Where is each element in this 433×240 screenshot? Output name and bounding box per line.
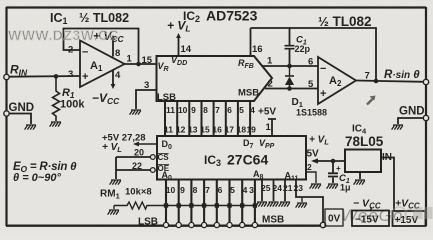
junction D1/pin2 wire [287, 86, 292, 91]
wire CS/OE common to ground [115, 157, 117, 179]
frame right border [425, 7, 427, 226]
wire Rin to A1 pin3 [9, 75, 80, 78]
frame left border [5, 7, 7, 226]
IC3 pin 20 CS wire [116, 156, 150, 158]
IC3 pin 23 wire to 0V terminal [296, 180, 323, 224]
ground RM1 [108, 210, 119, 215]
terminal 0V circle [320, 222, 325, 227]
wire A2 output [356, 81, 424, 82]
IC2 pin 16 wire up [250, 28, 252, 56]
IC3 address pin numbers [166, 185, 254, 195]
ground [392, 125, 403, 130]
IC2 pin 3 LSB wire to ground [136, 90, 157, 109]
ground pin 24 [267, 202, 278, 207]
78L05 ground stub [359, 172, 361, 179]
ground [130, 110, 141, 115]
EPROM IC3 27C64 body [157, 136, 306, 180]
wire +VL arrow to IC3 [137, 143, 157, 145]
IC3 data pin numbers 11-19 [164, 125, 256, 135]
junction R1 top [54, 74, 59, 79]
feedback top wire to A2 output [251, 28, 377, 81]
data bus wires IC2 to IC3 (8) [165, 101, 250, 136]
wire GND right to ground [398, 118, 424, 124]
IC2 pin 14 VDD stub [178, 36, 180, 56]
watermark [341, 206, 433, 225]
terminal R sin theta [423, 79, 428, 84]
terminal box +15V [393, 211, 426, 226]
ground R1 [50, 122, 61, 127]
junction feedback/A2 output [374, 79, 379, 84]
frame top border [6, 6, 426, 8]
A1 feedback wire pin2 to output [64, 29, 139, 65]
ground pin 25 [256, 202, 267, 207]
wire -Vcc stub [370, 207, 372, 211]
terminal box 0V [325, 209, 343, 226]
capacitor C1 1u [332, 161, 334, 173]
bus terminal circles [163, 222, 257, 227]
IC3 pin 22 OE wire [116, 169, 150, 171]
ground pin 21 [279, 202, 290, 207]
ground [25, 125, 36, 130]
DAC IC2 AD7523 body [157, 56, 273, 101]
wire IC2 pin1 to A2 pin6 [262, 65, 318, 67]
address wires IC3 bottom (8) [166, 180, 255, 225]
op-amp U1 A1 [80, 41, 125, 88]
diode D1 1S1588 [289, 66, 291, 76]
junction dots on RM1 bus [164, 203, 257, 207]
terminal box -15V [352, 211, 389, 227]
junction C1 rail [331, 159, 336, 164]
IC2 data pin numbers 11-4 [166, 105, 255, 115]
resistor R1 100k [53, 76, 60, 121]
wire 5V to 78L05 output [317, 160, 345, 162]
IC3 pins 25,24,21 grounds [262, 180, 285, 202]
wire GND left to ground [9, 114, 31, 125]
ground 0V line [301, 197, 303, 202]
junction C1/pin1 wire [287, 64, 292, 69]
A1 pin 4 -Vcc stub [112, 70, 114, 86]
bottom bus LSB-MSB [6, 224, 324, 226]
watermark arrow [367, 96, 376, 105]
wire IC2 pin2 to A2 pin5 [265, 88, 318, 90]
wire A1 output to IC2 pin15 [125, 63, 157, 65]
junction A1 feedback/output [136, 62, 141, 67]
A1 pin 8 +Vcc stub [112, 38, 114, 57]
capacitor C1 22p [289, 28, 291, 45]
wire +5V to IC3 Vpp pin 1 [268, 119, 276, 136]
op-amp U2 A2 [318, 57, 356, 104]
wire 78L05 IN to +15V [381, 158, 394, 212]
ground CS/OE [110, 180, 121, 185]
